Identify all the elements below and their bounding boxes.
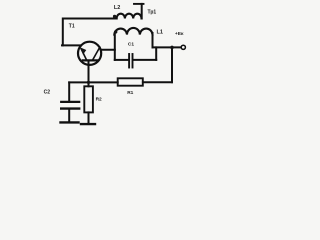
svg-text:С2: С2 bbox=[44, 89, 51, 95]
capacitor C2 bbox=[61, 102, 79, 109]
node dot rail junction bbox=[170, 46, 174, 50]
wire C2 bottom lead bbox=[68, 110, 70, 121]
antenna terminal of L2 bbox=[134, 4, 144, 19]
wire right drop bbox=[171, 47, 173, 82]
wire C2 top lead bbox=[68, 82, 70, 100]
node dot L2 start bbox=[113, 15, 116, 18]
wire C1 left bbox=[115, 59, 128, 61]
node dot L1 start bbox=[114, 30, 117, 33]
wire +Ek rail bbox=[153, 46, 182, 48]
resistor R2 bbox=[84, 86, 93, 112]
wire R2 bottom lead bbox=[88, 112, 90, 123]
wire bottom right bbox=[143, 81, 172, 83]
wire C1 to rail bbox=[155, 47, 157, 60]
ground C2 bbox=[61, 121, 79, 123]
svg-text:L2: L2 bbox=[114, 5, 120, 11]
svg-text:C1: C1 bbox=[128, 41, 134, 47]
svg-text:L1: L1 bbox=[157, 29, 164, 35]
node dot base junction bbox=[87, 81, 90, 84]
wire collector horizontal bbox=[101, 49, 115, 51]
resistor R1 bbox=[118, 78, 143, 85]
wire emitter horizontal bbox=[62, 44, 81, 46]
transistor T1 bbox=[78, 42, 101, 65]
wire L1 right end down bbox=[152, 33, 154, 47]
inductor L1 bbox=[114, 28, 152, 35]
svg-text:R2: R2 bbox=[96, 97, 102, 103]
wire C1 right bbox=[133, 59, 156, 61]
svg-text:+Eк: +Eк bbox=[175, 31, 184, 37]
svg-text:R1: R1 bbox=[127, 90, 133, 96]
wire base to C2 bbox=[69, 81, 88, 83]
ground R2 bbox=[81, 123, 95, 125]
wire top rail bbox=[63, 19, 117, 46]
wire base vertical bbox=[88, 61, 90, 87]
terminal +Ek bbox=[181, 45, 185, 49]
wire collector vertical / tank left bbox=[114, 35, 116, 60]
capacitor C1 bbox=[129, 54, 132, 68]
svg-text:T1: T1 bbox=[69, 24, 75, 30]
svg-text:Тр1: Тр1 bbox=[148, 10, 157, 16]
wire bottom left of R1 bbox=[89, 81, 118, 83]
inductor L2 bbox=[117, 14, 142, 19]
